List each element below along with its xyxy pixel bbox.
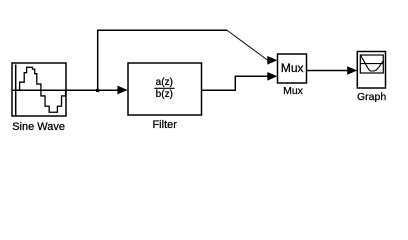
wire diagonal to Mux upper input <box>227 30 268 60</box>
arrowhead into Mux lower input <box>267 72 277 81</box>
graph icon screen <box>360 55 383 73</box>
graph icon curve <box>361 55 384 71</box>
label Sine Wave <box>12 121 65 133</box>
block Filter <box>128 63 202 115</box>
block Graph <box>357 52 385 89</box>
label Graph <box>357 91 386 103</box>
label Mux <box>283 85 303 97</box>
arrowhead into Mux upper input <box>267 56 277 65</box>
label Filter <box>152 119 176 131</box>
wire branch up and across top <box>98 30 228 90</box>
wire Filter output to Mux lower input <box>202 76 268 90</box>
junction dot <box>96 89 99 92</box>
wire Sine Wave output to Filter (includes icon x-axis) <box>12 89 118 91</box>
wire Mux output to Graph <box>307 70 348 72</box>
graph icon midline <box>360 63 383 65</box>
sine icon staircase <box>16 67 65 112</box>
text a(z) numerator <box>156 77 173 88</box>
sine icon y-axis <box>15 65 17 116</box>
text b(z) denominator <box>156 89 173 100</box>
text Mux inside block <box>281 61 304 75</box>
block Sine Wave <box>12 63 66 116</box>
fraction bar a(z)/b(z) <box>154 87 174 89</box>
arrowhead into Graph <box>347 66 357 75</box>
block Mux <box>278 54 307 83</box>
arrowhead into Filter <box>117 86 127 95</box>
